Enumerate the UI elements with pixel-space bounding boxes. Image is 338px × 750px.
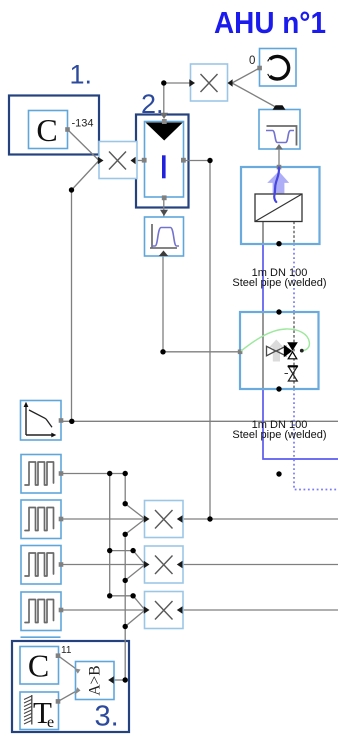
svg-text:AHU n°1: AHU n°1 — [214, 6, 326, 40]
wire X-A input from lower-left diagonal — [72, 161, 100, 191]
wire junction to X-top — [164, 82, 191, 84]
heat flow arrow — [267, 171, 289, 193]
wire bus2 stub — [124, 474, 126, 504]
three-way valve bowtie — [267, 346, 286, 356]
node valve bottom port — [276, 386, 281, 391]
wire bus1 vertical x=109.7 — [109, 474, 111, 596]
inverse pulse block U — [259, 105, 300, 149]
junction right of integrator — [207, 158, 212, 163]
wire vertical x=209 — [209, 161, 211, 520]
black valve top triangle — [287, 342, 298, 351]
block Te temperature — [20, 692, 59, 731]
wire A>B output to bus2 — [114, 679, 125, 681]
multiplier X2 — [144, 546, 183, 583]
wire U bottom to coil top — [278, 149, 280, 167]
svg-text:A>B: A>B — [87, 665, 104, 695]
wire X1 output — [183, 518, 338, 520]
svg-text:-134: -134 — [72, 118, 94, 130]
square wave block 1 — [21, 455, 63, 494]
stray block edge above region 3 — [21, 636, 61, 638]
square wave block 4 — [21, 592, 63, 631]
wire X2 output — [183, 564, 338, 566]
wire I right to junction — [182, 160, 210, 162]
green control curve — [241, 329, 309, 351]
wire C1 to X-A diagonal — [68, 130, 100, 161]
pipe blue dotted coil to valve — [293, 244, 295, 312]
pipe gray dashed inside coil block — [293, 222, 295, 245]
black valve bottom outline triangle — [288, 352, 297, 359]
svg-text:3.: 3. — [95, 701, 119, 733]
wire junction to I top — [163, 83, 165, 117]
junction on left riser top — [69, 187, 74, 192]
multiplier X-A — [98, 142, 137, 179]
junction above integrator — [161, 80, 166, 85]
wire to valve left input — [163, 351, 240, 353]
region rect 2 — [136, 115, 189, 208]
connector C1 output — [65, 127, 70, 132]
svg-text:0: 0 — [249, 55, 255, 67]
block C2 constant — [20, 647, 59, 685]
junction jog2 end — [130, 593, 135, 598]
connector Te output — [56, 699, 61, 704]
wire vertical x=71.5 — [71, 190, 73, 421]
wire diag to X2 upper — [133, 551, 145, 565]
multiplier X3 — [144, 592, 183, 629]
pipe gray dashed inside valve block — [293, 312, 295, 389]
pipe gray solid inside coil block — [262, 222, 264, 245]
pulse shape block — [145, 217, 184, 256]
region rect 3 — [12, 641, 129, 732]
pipe blue solid below valve with elbow — [263, 389, 338, 459]
black valve left triangle — [284, 345, 293, 358]
wire pulse block down — [162, 256, 164, 352]
wire diag to X1 lower — [125, 519, 145, 534]
hourglass valve — [288, 367, 297, 382]
svg-text:C: C — [28, 648, 49, 684]
node coil bottom port — [276, 241, 281, 246]
coil rectangle — [255, 194, 302, 222]
junction bus1 jog2 — [107, 593, 112, 598]
wire X3 output — [183, 609, 338, 611]
wire sq4 output — [61, 609, 145, 611]
function curve block — [21, 401, 64, 441]
junction pulse-to-valve elbow — [160, 349, 165, 354]
connector C2 output — [56, 653, 61, 658]
junction jog1 end — [130, 548, 135, 553]
multiplier X-top — [189, 64, 232, 101]
wire sq2 output — [61, 518, 145, 520]
wire sq1 output — [61, 473, 125, 475]
multiplier X1 — [144, 501, 183, 538]
comparator A>B — [74, 662, 114, 700]
rotate block — [257, 49, 296, 87]
wire diag to X1 upper — [125, 504, 145, 519]
junction bus1 jog1 — [107, 548, 112, 553]
junction X1 lower tap — [123, 532, 128, 537]
wire diag to X2 lower — [125, 565, 145, 581]
svg-text:Steel pipe (welded): Steel pipe (welded) — [232, 277, 326, 289]
wire diag to X3 upper — [133, 596, 145, 610]
wire Te to A>B diagonal — [58, 692, 76, 702]
wire diag to X3 lower — [125, 610, 145, 627]
junction bus2 top — [123, 471, 128, 476]
junction X3 lower tap — [123, 624, 128, 629]
junction X1 output — [207, 516, 212, 521]
svg-text:Steel pipe (welded): Steel pipe (welded) — [232, 429, 326, 441]
pipe gray solid inside valve block — [262, 312, 264, 389]
node below valve — [276, 471, 281, 476]
svg-text:11: 11 — [61, 645, 72, 656]
integrator block I — [142, 113, 186, 200]
heating coil block — [241, 165, 320, 244]
pipe blue dotted below valve with elbow — [294, 389, 338, 490]
square wave block 2 — [21, 500, 63, 539]
wire jog2 — [110, 595, 133, 597]
junction X1 upper tap — [123, 501, 128, 506]
block C1 constant — [29, 111, 68, 149]
svg-text:C: C — [36, 112, 57, 148]
square wave block 3 — [21, 546, 63, 585]
region rect 1 — [9, 96, 99, 155]
arrow into pulse block — [160, 210, 168, 216]
junction bus1 top — [107, 471, 112, 476]
wire I bottom to pulse block — [163, 197, 165, 219]
wire X-top to rotate block diagonal — [232, 68, 260, 83]
wire sq3 output — [61, 564, 145, 566]
svg-text:1.: 1. — [70, 60, 93, 90]
junction curve-block output — [69, 419, 74, 424]
gray translucent arrow — [269, 340, 284, 362]
wire bus2 lower vertical — [124, 534, 126, 680]
wire long horizontal y=420.5 — [61, 420, 338, 422]
node valve top port — [276, 309, 281, 314]
wire C2 to A>B diagonal — [58, 656, 76, 669]
valve block — [238, 312, 319, 389]
junction X2 lower tap — [123, 578, 128, 583]
wire X-top to U-block diagonal — [232, 83, 277, 108]
wire jog1 — [110, 550, 133, 552]
wire X-A out to I left — [136, 160, 146, 162]
pipe blue solid coil to valve — [262, 244, 264, 312]
junction comparator output — [123, 677, 128, 682]
svg-text:e: e — [47, 714, 54, 731]
